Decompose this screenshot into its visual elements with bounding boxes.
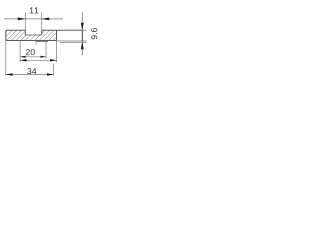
dim 20: dimension line <box>20 56 46 58</box>
dim 20 left extension line <box>19 40 21 61</box>
dim 11 right arrowhead <box>42 18 50 21</box>
dim 11 right extension line <box>41 12 43 30</box>
dim 11 left arrowhead <box>18 18 26 21</box>
dim 11 text <box>30 7 39 13</box>
dim 9.6 top arrowhead <box>81 23 84 31</box>
section break line <box>56 30 58 40</box>
dim 9.6 bottom arrowhead <box>81 42 84 50</box>
dim 34 right extension line <box>53 64 55 76</box>
top edge right segment <box>42 29 83 31</box>
groove right wall <box>41 30 43 35</box>
unlabeled dim right arrowhead <box>50 59 57 61</box>
unlabeled dim left arrowhead <box>20 59 27 61</box>
dim 11 left extension line <box>24 12 26 30</box>
hatched section area of rail profile <box>6 30 57 40</box>
bottom dark segment <box>36 40 48 42</box>
dim 34 left arrowhead <box>6 73 13 75</box>
section break extension line <box>56 40 58 62</box>
dim 9.6 text rotated <box>91 28 97 39</box>
groove floor <box>25 34 41 36</box>
unlabeled dimension line y=60.3 <box>20 59 57 61</box>
dim 9.6: vertical dimension line / right edge <box>81 12 83 55</box>
dim 20 left arrowhead <box>20 56 26 58</box>
groove left wall <box>24 30 26 35</box>
dim 11: dimension line <box>4 18 63 20</box>
part left edge <box>5 30 7 40</box>
hatch bottom edge <box>6 39 57 41</box>
dim 20 right arrowhead <box>41 56 47 58</box>
dim 34 left extension line <box>5 40 7 75</box>
part outline: top edge left segment <box>6 29 26 31</box>
top edge extension to 9.6 dim <box>82 29 86 31</box>
part right edge overlap <box>81 30 83 41</box>
dim 20 text <box>26 49 35 55</box>
dim 34 text <box>27 68 36 74</box>
dim 20 right extension line <box>45 40 47 59</box>
short vertical edge at x=36 <box>35 41 37 45</box>
bottom right lower shadow line <box>60 42 86 44</box>
bottom right thin edge <box>57 40 87 42</box>
dim 34: dimension line <box>6 74 54 76</box>
dim 34 right arrowhead <box>47 73 54 75</box>
